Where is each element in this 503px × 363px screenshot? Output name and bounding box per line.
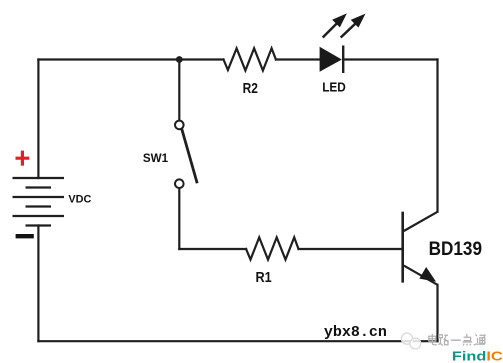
wire left vertical (battery plus) (37, 60, 39, 179)
battery minus sign (16, 234, 34, 238)
svg-text:FindIC: FindIC (452, 349, 503, 363)
switch SW1 pole lower (175, 179, 184, 188)
switch SW1 blade (182, 129, 198, 184)
svg-text:LED: LED (322, 79, 346, 94)
watermark logo circles (401, 333, 420, 349)
watermark chinese text dian (429, 334, 437, 345)
svg-text:VDC: VDC (68, 193, 91, 205)
LED arrow 2 (341, 15, 365, 38)
wire base right segment (299, 248, 402, 250)
battery plus sign (16, 151, 30, 166)
resistor R1 (246, 237, 298, 259)
wire left vertical (battery minus) (37, 226, 39, 342)
svg-text:R2: R2 (243, 80, 258, 97)
watermark chinese text tong (474, 334, 485, 345)
LED diode triangle (320, 47, 342, 72)
resistor R2 (224, 48, 276, 70)
node junction dot (176, 56, 183, 63)
watermark chinese text dian2 (463, 334, 473, 346)
transistor Q1 base bar (401, 212, 404, 283)
svg-text:SW1: SW1 (143, 151, 169, 165)
battery VDC (13, 178, 65, 226)
wire top between R2 and LED (276, 58, 321, 60)
wire base left segment (179, 248, 246, 250)
wire emitter vertical (436, 285, 438, 341)
wire switch lower (178, 188, 180, 249)
wire right vertical (collector) (436, 60, 438, 212)
wire top between LED and right corner (343, 58, 437, 60)
transistor Q1 collector diagonal (404, 212, 438, 231)
wire top-left (38, 58, 223, 60)
watermark chinese text lu (439, 335, 449, 346)
wire switch upper (178, 60, 180, 121)
LED cathode bar (342, 46, 344, 74)
watermark chinese text yi (451, 339, 461, 341)
transistor Q1 emitter diagonal (404, 266, 438, 285)
LED arrow 1 (323, 15, 346, 38)
wire bottom (38, 340, 437, 342)
transistor Q1 emitter arrowhead (420, 268, 435, 281)
switch SW1 pole upper (175, 121, 184, 130)
svg-text:ybx8.cn: ybx8.cn (324, 324, 387, 341)
svg-text:R1: R1 (256, 269, 272, 286)
svg-text:BD139: BD139 (429, 239, 482, 260)
